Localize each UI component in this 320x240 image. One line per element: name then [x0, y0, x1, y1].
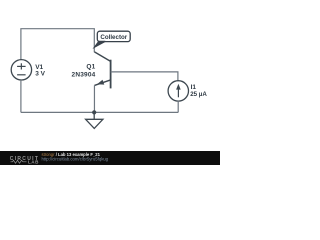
wire V1 bottom to ground rail	[20, 80, 22, 112]
footer CircuitLab logo	[10, 156, 39, 165]
transistor Q1 base bar	[110, 60, 112, 89]
node callout Collector	[93, 31, 131, 49]
label V1	[35, 64, 43, 71]
svg-text:25 µA: 25 µA	[190, 91, 207, 98]
value label 2N3904	[72, 71, 96, 78]
svg-text:3 V: 3 V	[35, 71, 45, 78]
ground	[86, 112, 103, 128]
transistor Q1 collector lead	[94, 52, 110, 62]
value label 25 uA	[190, 91, 207, 98]
footer url line	[42, 157, 109, 162]
wire base lead to I1	[111, 72, 178, 81]
svg-text:Q1: Q1	[86, 63, 95, 70]
value label 3 V	[35, 71, 45, 78]
svg-text:LAB: LAB	[28, 159, 39, 164]
svg-text:Collector: Collector	[100, 34, 127, 41]
junction node	[92, 110, 96, 114]
footer circuit title line	[42, 152, 101, 157]
label I1	[191, 84, 197, 91]
current source I1	[168, 81, 188, 101]
wire I1 bottom	[177, 101, 179, 112]
svg-text:http://circuitlab.com/c/br5yru: http://circuitlab.com/c/br5yru5fqkug	[42, 157, 109, 162]
svg-text:2N3904: 2N3904	[72, 71, 96, 78]
svg-text:I1: I1	[191, 84, 197, 91]
label Q1	[86, 63, 95, 70]
wire bottom rail	[21, 111, 178, 113]
footer bar	[0, 151, 220, 165]
transistor Q1 emitter lead with arrow	[94, 80, 110, 86]
voltage source V1	[11, 60, 31, 80]
wire emitter down	[93, 85, 95, 112]
wire top rail V1 to collector	[21, 29, 94, 60]
